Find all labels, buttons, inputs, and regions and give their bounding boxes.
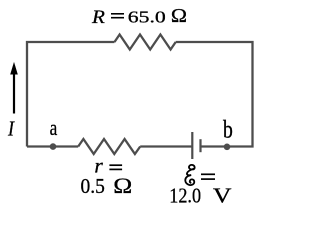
svg-text:Ω: Ω — [171, 6, 187, 27]
wire: top-right and right side — [176, 42, 253, 147]
svg-text:I: I — [7, 117, 15, 141]
label equals after R — [111, 14, 124, 18]
svg-text:Ω: Ω — [113, 174, 132, 198]
label ohm (bottom) — [113, 174, 132, 198]
svg-text:65.0: 65.0 — [128, 7, 166, 26]
current arrow I: shaft — [13, 72, 15, 114]
label r (italic) — [94, 156, 103, 177]
svg-text:R: R — [91, 7, 105, 28]
label 12.0 — [169, 185, 201, 207]
svg-text:0.5: 0.5 — [81, 175, 105, 198]
current arrow I: head — [10, 62, 18, 75]
svg-text:r: r — [94, 156, 103, 177]
label 65.0 — [128, 7, 166, 26]
battery: short plate — [199, 139, 201, 152]
label V (volts) — [213, 185, 232, 208]
label a (node) — [50, 116, 58, 141]
label equals after r — [109, 165, 122, 169]
wire: left side and top-left segment — [27, 42, 115, 147]
wire: resistor r to node a to bottom-left corner — [27, 145, 78, 147]
label equals after script-E — [201, 174, 215, 179]
svg-text:12.0: 12.0 — [169, 185, 201, 207]
svg-text:V: V — [213, 185, 232, 208]
label I (italic, current) — [7, 117, 15, 141]
wire: battery to resistor r — [140, 145, 192, 147]
svg-text:b: b — [223, 115, 233, 143]
label b (node) — [223, 115, 233, 143]
label script-E (EMF symbol) — [185, 165, 194, 185]
resistor r (zigzag, bottom) — [78, 139, 140, 154]
node b (junction dot) — [224, 144, 231, 151]
label 0.5 — [81, 175, 105, 198]
wire: node b to battery short plate — [201, 145, 228, 147]
node a (junction dot) — [50, 143, 57, 150]
battery: long plate — [191, 132, 193, 159]
label R (italic) — [91, 7, 105, 28]
label ohm (top) — [171, 6, 187, 27]
resistor R (zigzag, top) — [115, 35, 176, 50]
svg-text:a: a — [50, 116, 58, 141]
